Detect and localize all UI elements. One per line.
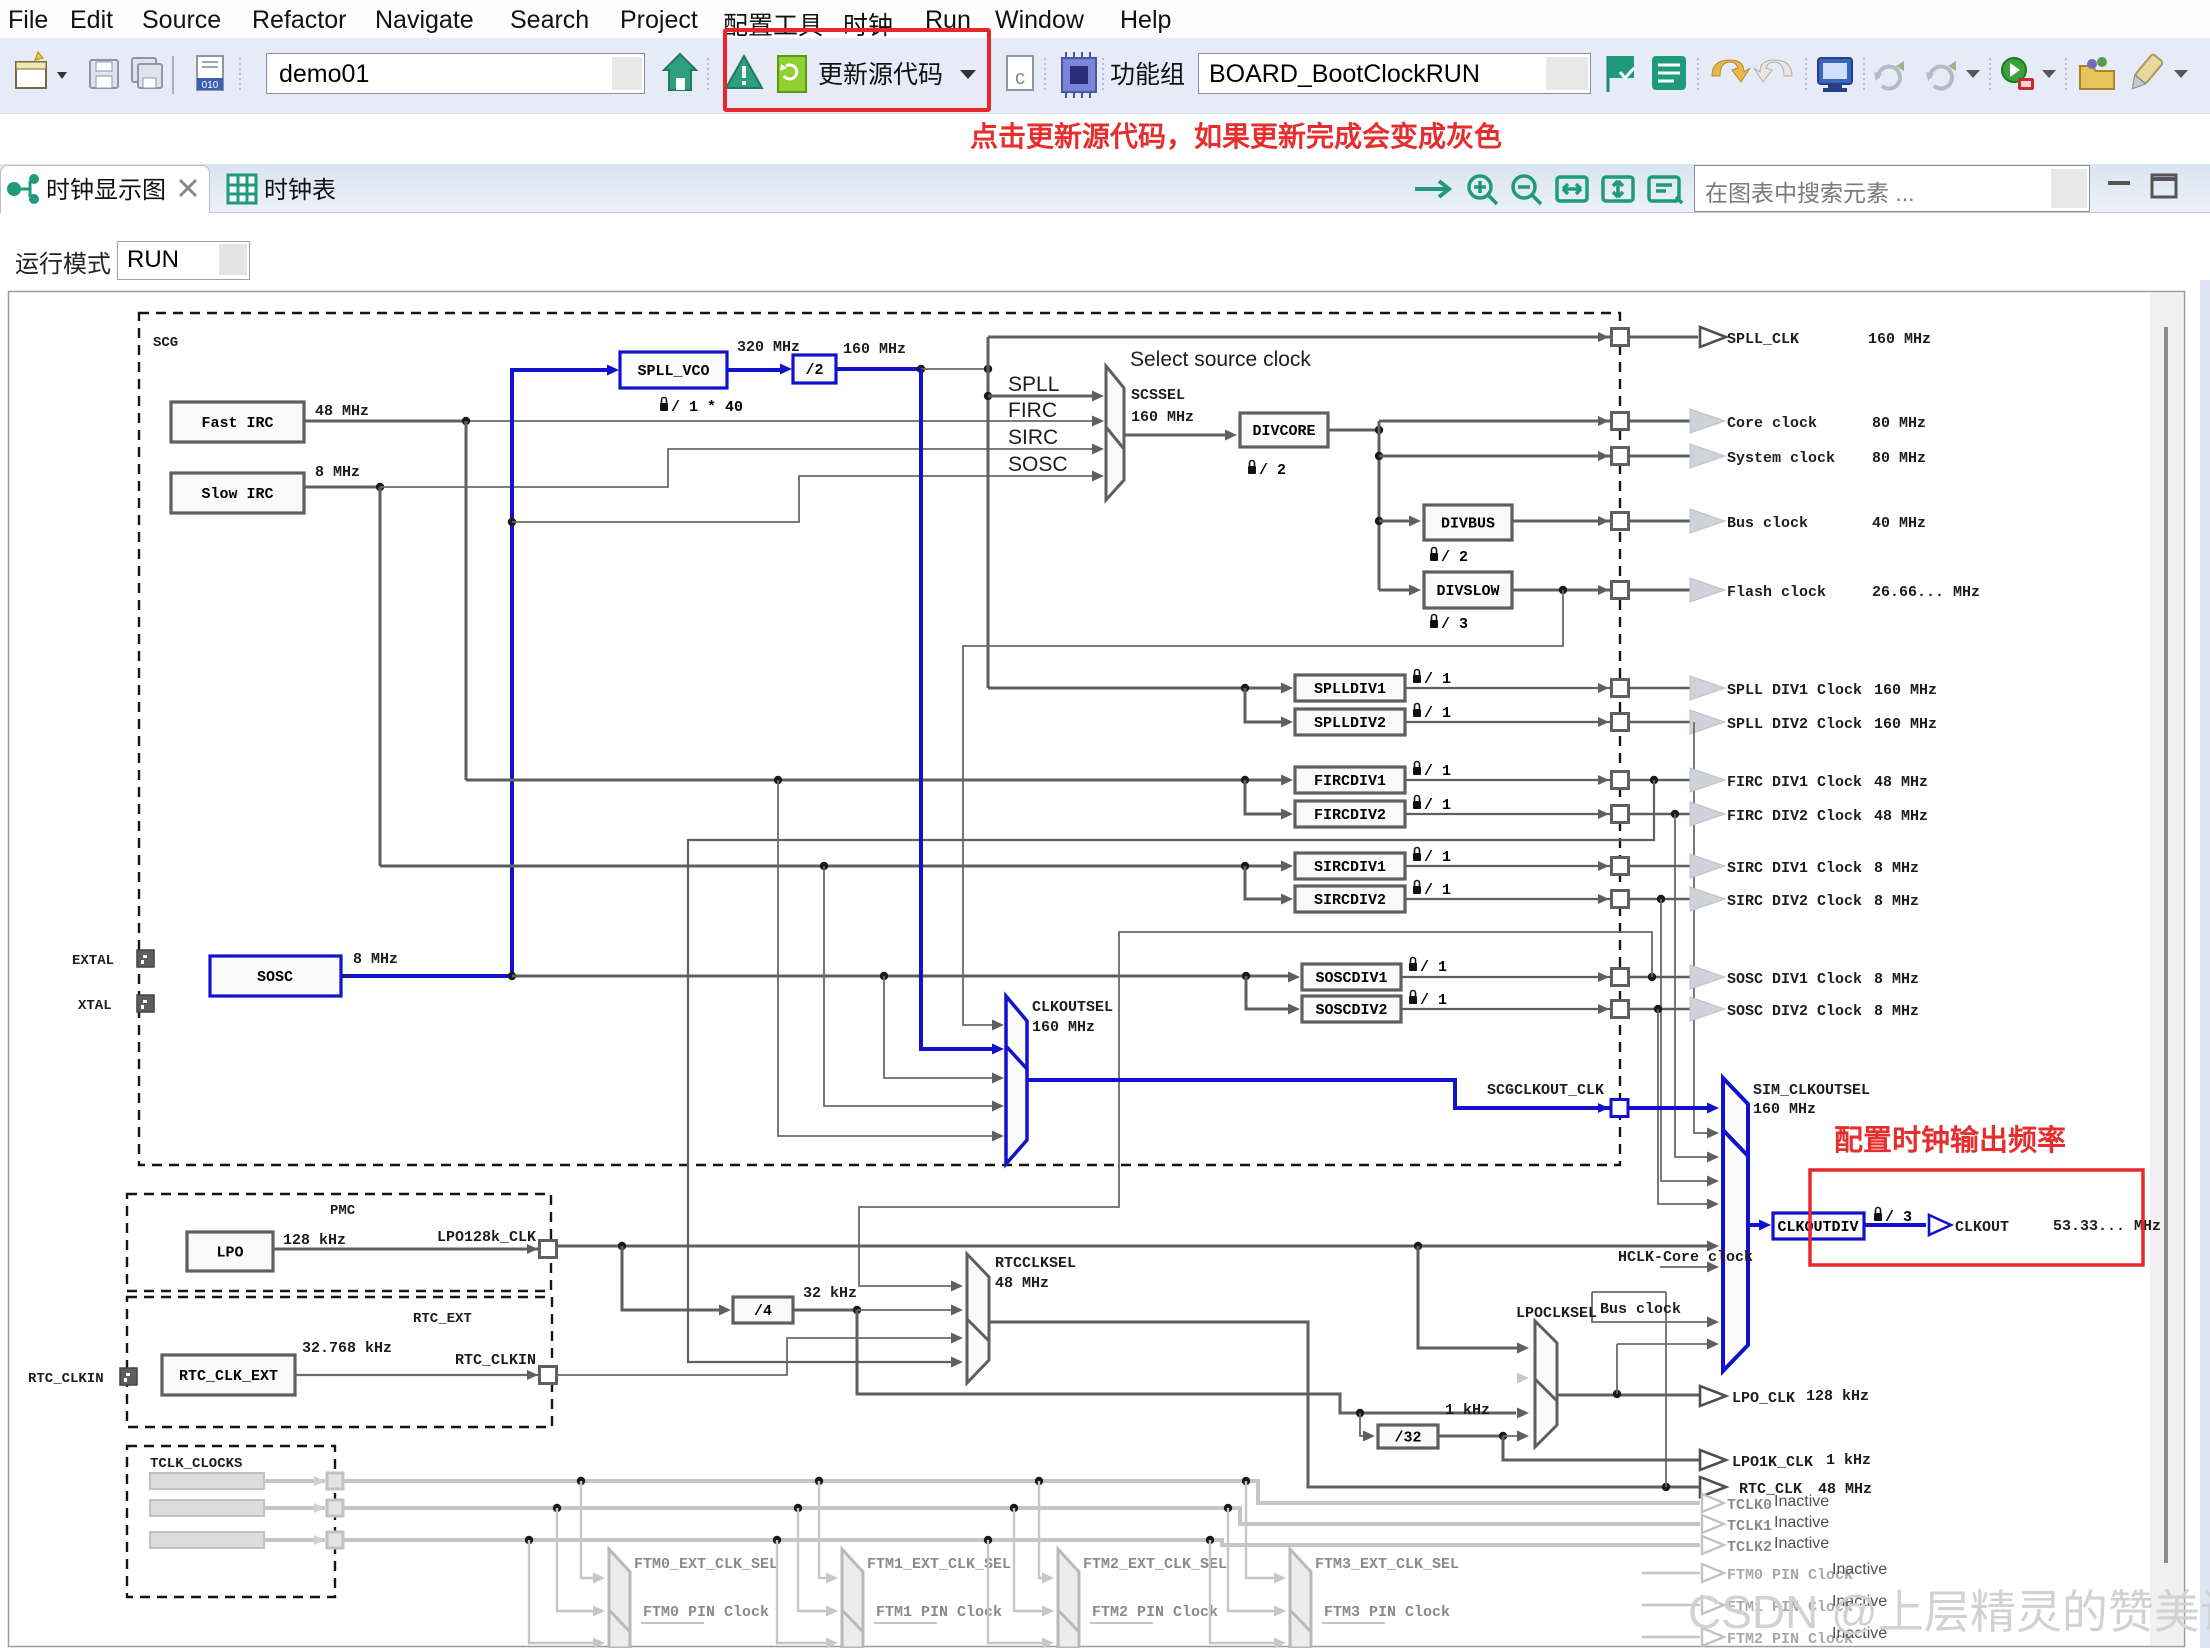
list icon — [1652, 56, 1686, 90]
arrowhead SPLL mux input — [1092, 391, 1104, 402]
arrowhead FTM2 input3 — [1042, 1638, 1054, 1648]
wire div4 output 32kHz — [793, 1309, 857, 1312]
svg-text:FIRC DIV2 Clock: FIRC DIV2 Clock — [1727, 808, 1862, 825]
svg-text:8 MHz: 8 MHz — [1874, 893, 1919, 910]
divider DIVSLOW value — [1430, 615, 1468, 634]
output arrow SPLL DIV2 Clock — [1690, 710, 1725, 734]
svg-text:LPOCLKSEL: LPOCLKSEL — [1516, 1305, 1597, 1322]
junction SOSC DIV2 to SIM mux — [1654, 1005, 1662, 1013]
arrowhead into port connector y590 — [1598, 585, 1609, 595]
wire SOSC to SPLL_VCO blue — [512, 370, 612, 976]
project name field — [266, 53, 645, 94]
arrowhead FTM2 input1 — [1042, 1573, 1054, 1584]
divider box CLKOUTDIV — [1773, 1213, 1864, 1239]
output arrow RTC_CLK — [1700, 1477, 1726, 1497]
wire FTM3 input3 — [1210, 1540, 1278, 1643]
svg-text:160 MHz: 160 MHz — [1032, 1019, 1095, 1036]
wire SOSCDIV1 output — [1401, 976, 1611, 978]
arrowhead SIM mux input HCLK — [1707, 1262, 1719, 1273]
port connector FIRC DIV1 — [1612, 772, 1629, 789]
svg-text:8 MHz: 8 MHz — [1874, 1003, 1919, 1020]
mux FTM0_EXT_CLK_SEL — [609, 1549, 630, 1648]
arrowhead into port connector y1009 — [1598, 1004, 1609, 1014]
svg-text:SPLL: SPLL — [1008, 373, 1059, 396]
junction FTM0 tap1 — [577, 1477, 585, 1485]
svg-text:80 MHz: 80 MHz — [1872, 450, 1926, 467]
wire 32kHz to LPOCLKSEL input3 — [857, 1310, 1516, 1413]
svg-text:RTC_CLKIN: RTC_CLKIN — [28, 1371, 104, 1387]
box DIVSLOW — [1424, 572, 1512, 608]
arrowhead into port connector y899 — [1598, 894, 1609, 904]
output arrow LPO_CLK — [1700, 1386, 1726, 1406]
svg-text:Flash clock: Flash clock — [1727, 584, 1826, 601]
wire bus path horizontal — [1592, 1291, 1666, 1293]
arrowhead SPLL_VCO input — [607, 365, 619, 376]
svg-text:SPLL_CLK: SPLL_CLK — [1727, 331, 1799, 348]
junction LPO128k to LPOCLKSEL — [1414, 1242, 1422, 1250]
port connector SIRC DIV2 — [1612, 891, 1629, 908]
wire FTM2 input2 — [1014, 1508, 1046, 1611]
svg-text:32 kHz: 32 kHz — [803, 1285, 857, 1302]
monitor icon — [1818, 58, 1852, 92]
clock diagram tab icon — [7, 174, 39, 204]
output arrow FIRC DIV2 Clock — [1690, 802, 1725, 826]
svg-text:SIRC DIV2 Clock: SIRC DIV2 Clock — [1727, 893, 1862, 910]
svg-text:FTM2 PIN Clock: FTM2 PIN Clock — [1092, 1604, 1218, 1621]
wire FIRC to mux — [466, 420, 1094, 422]
wire Bus clock to SIM mux — [1592, 1292, 1712, 1322]
junction SPLL node — [984, 365, 992, 373]
wire core distribution vertical — [1378, 421, 1381, 590]
junction FTM3 tap3 — [1206, 1536, 1214, 1544]
svg-text:SPLL DIV2 Clock: SPLL DIV2 Clock — [1727, 716, 1862, 733]
svg-text:DIVCORE: DIVCORE — [1252, 423, 1315, 440]
svg-text:/2: /2 — [805, 362, 823, 379]
junction RTC_CLK to SIM mux — [1662, 1483, 1670, 1491]
junction DIVBUS tap — [1375, 517, 1383, 525]
wire FTM1 input3 — [777, 1540, 830, 1643]
junction FTM2 tap2 — [1010, 1504, 1018, 1512]
wire TCLK2 to connector — [264, 1538, 325, 1542]
underline FTM2 PIN Clock — [1090, 1622, 1153, 1624]
svg-text:RTC_EXT: RTC_EXT — [413, 1311, 472, 1327]
port connector TCLK0 — [327, 1473, 343, 1489]
pin connector RTC_CLKIN — [120, 1368, 137, 1385]
svg-text:FIRC DIV1 Clock: FIRC DIV1 Clock — [1727, 774, 1862, 791]
svg-text:Core clock: Core clock — [1727, 415, 1817, 432]
junction SIRCDIV2 branch — [1241, 862, 1249, 870]
svg-text:FTM3 PIN Clock: FTM3 PIN Clock — [1324, 1604, 1450, 1621]
svg-text:SIRCDIV2: SIRCDIV2 — [1314, 892, 1386, 909]
svg-text:FTM0 PIN Clock: FTM0 PIN Clock — [643, 1604, 769, 1621]
arrowhead FTM3 input1 — [1274, 1573, 1286, 1584]
svg-text:SCSSEL: SCSSEL — [1131, 387, 1185, 404]
svg-text:FTM1 PIN Clock: FTM1 PIN Clock — [876, 1604, 1002, 1621]
red annotation rectangle — [1810, 1170, 2143, 1265]
port connector RTC_CLKIN — [540, 1367, 557, 1384]
binary file icon — [197, 56, 223, 91]
svg-text:48 MHz: 48 MHz — [1874, 774, 1928, 791]
output arrow FTM0 PIN Clock — [1702, 1564, 1724, 1582]
arrowhead LPOCLKSEL input 4 — [1517, 1431, 1529, 1442]
clock table tab icon — [228, 175, 256, 203]
svg-text:Bus clock: Bus clock — [1600, 1301, 1681, 1318]
underline FTM1 PIN Clock — [874, 1622, 937, 1624]
wire RTC_CLK_EXT output — [295, 1374, 540, 1376]
junction SOSC tap to CLKOUTSEL — [880, 972, 888, 980]
svg-text:Inactive: Inactive — [1774, 1493, 1829, 1510]
arrowhead into port connector y977 — [1598, 972, 1609, 982]
wire SPLL_VCO to div2 — [727, 368, 785, 372]
svg-text:SOSCDIV2: SOSCDIV2 — [1315, 1002, 1387, 1019]
arrowhead into TCLK port y1540 — [314, 1535, 325, 1545]
output arrow System clock — [1690, 444, 1725, 468]
wire FIRC DIV2 to SIM mux — [1675, 814, 1712, 1157]
arrowhead FTM2 input2 — [1042, 1606, 1054, 1617]
divider box /4 — [733, 1297, 793, 1323]
box FIRCDIV1 — [1295, 767, 1405, 793]
junction SOSC blue node — [508, 972, 516, 980]
svg-text:SOSCDIV1: SOSCDIV1 — [1315, 970, 1387, 987]
arrowhead SIM mux input SIRCDIV2 — [1707, 1176, 1719, 1187]
port connector SPLL DIV2 — [1612, 714, 1629, 731]
wire FIRCDIV1 output — [1405, 779, 1611, 781]
output arrow FTM2 PIN Clock — [1702, 1628, 1724, 1646]
output arrow TCLK0 — [1702, 1494, 1724, 1512]
wire SIRC DIV2 to arrow — [1629, 898, 1691, 901]
arrowhead FTM3 input2 — [1274, 1606, 1286, 1617]
underline FTM0 PIN Clock — [641, 1622, 704, 1624]
pin connector EXTAL — [137, 950, 154, 967]
wire branch to SOSCDIV2 — [1246, 976, 1295, 1009]
arrowhead RTCCLKSEL input 2 — [951, 1305, 963, 1316]
wire SIRC to mux — [380, 449, 1094, 487]
svg-text:SOSC DIV1 Clock: SOSC DIV1 Clock — [1727, 971, 1862, 988]
arrowhead SIRCDIV1 input — [1281, 861, 1293, 872]
wire LPO_CLK output — [1557, 1394, 1704, 1397]
wire branch to SIRCDIV2 — [1245, 866, 1288, 899]
wire SOSC DIV1 to RTCCLKSEL input1 — [859, 932, 1652, 1286]
junction SOSC DIV1 to RTCCLKSEL — [1648, 973, 1656, 981]
wire FTM2 PIN Clock output — [1642, 1636, 1700, 1638]
output arrow Bus clock — [1690, 509, 1725, 533]
svg-text:SIRCDIV1: SIRCDIV1 — [1314, 859, 1386, 876]
wire SPLL DIV2 to SIM mux — [1694, 722, 1712, 1133]
undo icon — [1712, 60, 1750, 82]
junction Slow IRC tap — [376, 483, 384, 491]
menu bar — [0, 0, 2210, 38]
junction FTM3 tap1 — [1242, 1477, 1250, 1485]
svg-text:FIRCDIV1: FIRCDIV1 — [1314, 773, 1386, 790]
svg-text:/ 1: / 1 — [1424, 671, 1451, 688]
arrowhead SIM mux input SOSCDIV2 — [1707, 1199, 1719, 1210]
wire SIRC divider feed row — [380, 865, 1290, 868]
junction FIRC DIV1 to RTCCLKSEL — [1650, 776, 1658, 784]
port connector LPO128k_CLK — [540, 1241, 557, 1258]
svg-text:Bus clock: Bus clock — [1727, 515, 1808, 532]
port connector Flash clock — [1612, 582, 1629, 599]
wire FTM3 input1 — [1246, 1481, 1278, 1578]
arrowhead into port connector y722 — [1598, 717, 1609, 727]
save all icon — [132, 58, 162, 88]
svg-text:SIRC: SIRC — [1008, 426, 1058, 449]
TCLK1 source bar — [150, 1500, 264, 1516]
wire SOSC DIV2 to SIM mux — [1658, 1009, 1712, 1204]
wire HCLK-Core clock to SIM mux — [1660, 1266, 1712, 1268]
box SPLLDIV1 — [1295, 675, 1405, 701]
output arrow SOSC DIV1 Clock — [1690, 965, 1725, 989]
junction FTM2 tap3 — [984, 1536, 992, 1544]
wire FTM0 input2 — [557, 1508, 597, 1611]
arrowhead div4 input — [719, 1305, 731, 1316]
svg-text:TCLK2: TCLK2 — [1727, 1539, 1772, 1556]
output arrow SPLL DIV1 Clock — [1690, 676, 1725, 700]
mux FTM1_EXT_CLK_SEL — [842, 1549, 863, 1648]
wire to LPOCLKSEL input1 — [1418, 1246, 1520, 1348]
wire TCLK2 row — [343, 1540, 1700, 1545]
junction SPLL 160MHz tap blue — [917, 365, 925, 373]
svg-text:/ 1 * 40: / 1 * 40 — [671, 399, 743, 416]
svg-text:LPO: LPO — [216, 1245, 243, 1262]
wire SIRCDIV2 output — [1405, 898, 1611, 900]
divider SPLLDIV2 value — [1413, 704, 1451, 723]
svg-text:/ 1: / 1 — [1424, 763, 1451, 780]
wire branch to SPLLDIV2 — [1245, 688, 1288, 722]
junction SIRC tap to CLKOUTSEL — [820, 862, 828, 870]
box SOSCDIV1 — [1302, 964, 1401, 990]
svg-text:RTC_CLKIN: RTC_CLKIN — [455, 1352, 536, 1369]
wire SPLL to mux — [988, 395, 1094, 398]
wire FTM1 input1 — [819, 1481, 830, 1578]
home icon — [664, 54, 696, 90]
wire FTM0 input3 — [529, 1540, 597, 1643]
PMC dashed group box — [127, 1194, 551, 1291]
wire SOSC DIV2 to arrow — [1629, 1008, 1691, 1011]
mux LPOCLKSEL — [1535, 1321, 1557, 1447]
wire SPLL DIV2 to arrow — [1629, 721, 1691, 724]
wire Flash clock to arrow — [1629, 589, 1691, 592]
svg-text:8 MHz: 8 MHz — [1874, 971, 1919, 988]
refresh run icon 1 — [1874, 61, 1904, 89]
arrowhead SIM mux input SPLLDIV2 — [1707, 1128, 1719, 1139]
arrowhead SIM mux input LPO_CLK — [1707, 1339, 1719, 1350]
arrowhead CLKOUTSEL input 3 — [992, 1073, 1004, 1084]
wire branch to FIRCDIV2 — [1245, 780, 1288, 814]
divider SOSCDIV1 value — [1409, 958, 1447, 977]
svg-text:SOSC: SOSC — [1008, 453, 1068, 476]
junction SOSC tap for mux — [508, 518, 516, 526]
wire Bus clock — [1512, 520, 1611, 523]
wire FIRC to CLKOUTSEL input5 — [778, 780, 997, 1136]
arrowhead FTM0 input1 — [593, 1573, 605, 1584]
divider SOSCDIV2 value — [1409, 991, 1447, 1010]
wire SOSC DIV1 to arrow — [1629, 976, 1691, 979]
svg-text:160 MHz: 160 MHz — [1131, 409, 1194, 426]
new file icon — [16, 52, 67, 88]
arrowhead FTM0 input3 — [593, 1638, 605, 1648]
svg-text:/ 1: / 1 — [1420, 992, 1447, 1009]
oscillator SOSC 8MHz blue output — [341, 974, 512, 978]
port connector Core clock — [1612, 413, 1629, 430]
wire Core clock to arrow — [1629, 420, 1691, 423]
arrowhead RTCCLKSEL input 4 — [951, 1357, 963, 1368]
wire div2 output blue 160MHz — [836, 367, 921, 371]
arrowhead into port connector y521 — [1598, 516, 1609, 526]
output arrow TCLK2 — [1702, 1536, 1724, 1554]
pin connector XTAL — [137, 995, 154, 1012]
svg-text:Slow IRC: Slow IRC — [201, 486, 273, 503]
arrowhead SIRC mux input — [1092, 444, 1104, 455]
junction to div32 — [1356, 1409, 1364, 1417]
junction SIRC DIV2 to SIM mux — [1657, 895, 1665, 903]
box SPLL_VCO — [620, 352, 727, 388]
save icon — [90, 60, 118, 88]
wire SPLL node vertical x988 — [987, 337, 990, 688]
wire TCLK0 row — [343, 1481, 1700, 1503]
wire Bus clock to arrow — [1629, 520, 1691, 523]
RTC_EXT dashed group box — [127, 1297, 552, 1427]
arrowhead SPLLDIV1 input — [1281, 683, 1293, 694]
svg-text:SIM_CLKOUTSEL: SIM_CLKOUTSEL — [1753, 1082, 1870, 1099]
junction FIRCDIV2 branch — [1241, 776, 1249, 784]
svg-text:/ 2: / 2 — [1259, 462, 1286, 479]
port connector SOSC DIV1 — [1612, 969, 1629, 986]
junction FIRC DIV2 to SIM mux — [1671, 810, 1679, 818]
arrowhead SIM mux input SCGCLKOUT blue — [1707, 1103, 1719, 1114]
output arrow SIRC DIV2 Clock — [1690, 887, 1725, 911]
box SOSCDIV2 — [1302, 996, 1401, 1022]
wire SIRC DIV2 to SIM mux — [1661, 899, 1712, 1181]
svg-text:Inactive: Inactive — [1774, 1514, 1829, 1531]
svg-text:SCGCLKOUT_CLK: SCGCLKOUT_CLK — [1487, 1082, 1604, 1099]
svg-text:8 MHz: 8 MHz — [315, 464, 360, 481]
arrowhead FTM3 input3 — [1274, 1638, 1286, 1648]
junction FTM0 tap3 — [525, 1536, 533, 1544]
svg-text:48 MHz: 48 MHz — [995, 1275, 1049, 1292]
SCG dashed group box — [139, 313, 1620, 1165]
svg-text:1 kHz: 1 kHz — [1826, 1452, 1871, 1469]
wire Slow IRC output 8MHz — [304, 486, 380, 489]
junction SPLLDIV2 branch — [1241, 684, 1249, 692]
junction SPLL mux feed — [984, 392, 992, 400]
svg-text:SPLL_VCO: SPLL_VCO — [637, 363, 709, 380]
wire FTM1 PIN Clock output — [1642, 1604, 1700, 1606]
wire to div32 — [1360, 1413, 1368, 1436]
wire FTM3 input2 — [1228, 1508, 1278, 1611]
arrowhead div32 input — [1363, 1431, 1375, 1442]
svg-text:TCLK0: TCLK0 — [1727, 1497, 1772, 1514]
arrowhead FTM1 input2 — [826, 1606, 838, 1617]
svg-text:160 MHz: 160 MHz — [1868, 331, 1931, 348]
svg-text:Inactive: Inactive — [1832, 1561, 1887, 1578]
svg-text:128 kHz: 128 kHz — [283, 1232, 346, 1249]
port connector SPLL DIV1 — [1612, 680, 1629, 697]
wire SIRC to CLKOUTSEL input4 — [824, 866, 997, 1106]
mux SIM_CLKOUTSEL — [1723, 1078, 1748, 1371]
divider SPLLDIV1 value — [1413, 670, 1451, 688]
tab zone — [0, 114, 2210, 213]
wire SPLL_CLK port to arrow — [1629, 336, 1698, 339]
svg-text:/ 2: / 2 — [1441, 549, 1468, 566]
arrowhead SOSCDIV2 input — [1288, 1004, 1300, 1015]
wire FTM2 input1 — [1039, 1481, 1046, 1578]
junction FTM3 tap2 — [1224, 1504, 1232, 1512]
mux RTCCLKSEL — [967, 1254, 989, 1383]
wire to div4 — [622, 1246, 726, 1310]
svg-text:System clock: System clock — [1727, 450, 1835, 467]
junction FTM1 tap1 — [815, 1477, 823, 1485]
wire FTM1 input2 — [798, 1508, 830, 1611]
svg-text:DIVSLOW: DIVSLOW — [1436, 583, 1499, 600]
svg-text:/4: /4 — [754, 1303, 772, 1320]
svg-text:FIRCDIV2: FIRCDIV2 — [1314, 807, 1386, 824]
svg-text:160 MHz: 160 MHz — [1874, 682, 1937, 699]
wire LPO output 128kHz — [273, 1248, 540, 1251]
refresh run icon 2 — [1926, 61, 1956, 89]
arrowhead CLKOUTSEL input 2 blue — [992, 1044, 1004, 1055]
arrowhead DIVBUS input — [1409, 516, 1421, 527]
arrowhead DIVSLOW input — [1409, 585, 1421, 596]
TCLK0 source bar — [150, 1473, 264, 1489]
arrowhead FIRCDIV2 input — [1281, 809, 1293, 820]
arrowhead into port connector y337 — [1598, 332, 1609, 342]
arrowhead CLKOUTSEL input 5 — [992, 1131, 1004, 1142]
junction FIRC tap to CLKOUTSEL — [774, 776, 782, 784]
svg-text:EXTAL: EXTAL — [72, 953, 114, 969]
arrowhead into port connector y780 — [1598, 775, 1609, 785]
svg-text:/ 1: / 1 — [1424, 882, 1451, 899]
vertical scrollbar thumb — [2164, 327, 2168, 1563]
box DIVBUS — [1424, 505, 1512, 540]
wire SPLLDIV2 output — [1405, 721, 1611, 723]
wire SIRCDIV1 output — [1405, 865, 1611, 867]
svg-text:/32: /32 — [1394, 1430, 1421, 1447]
wire System clock to arrow — [1629, 455, 1691, 458]
arrowhead FIRC mux input — [1092, 416, 1104, 427]
svg-text:CLKOUTSEL: CLKOUTSEL — [1032, 999, 1113, 1016]
wire RTC_CLKIN to RTCCLKSEL input3 — [557, 1338, 955, 1375]
underline FTM3 PIN Clock — [1322, 1622, 1385, 1624]
divider SIRCDIV2 value — [1413, 881, 1451, 900]
svg-text:SCG: SCG — [153, 335, 178, 351]
port connector System clock — [1612, 448, 1629, 465]
wire Flash clock — [1512, 589, 1611, 592]
functional group field — [1198, 53, 1591, 94]
mux SCSSEL system clock source select — [1106, 366, 1124, 500]
wire 160MHz to SPLL node — [921, 368, 988, 370]
svg-text:160 MHz: 160 MHz — [843, 341, 906, 358]
arrowhead SIM mux input FIRCDIV2 — [1707, 1152, 1719, 1163]
wire TCLK0 to connector — [264, 1479, 325, 1483]
svg-text:SOSC DIV2 Clock: SOSC DIV2 Clock — [1727, 1003, 1862, 1020]
output arrow FIRC DIV1 Clock — [1690, 768, 1725, 792]
run config icon — [2002, 58, 2034, 90]
wire TCLK1 row — [343, 1508, 1700, 1524]
output arrow CLKOUT — [1929, 1215, 1951, 1235]
arrowhead RTCCLKSEL input 1 — [951, 1281, 963, 1292]
arrowhead into port connector y814 — [1598, 809, 1609, 819]
arrowhead SOSCDIV1 input — [1288, 972, 1300, 983]
arrowhead into LPO128k port — [527, 1244, 538, 1254]
arrowhead SPLLDIV2 input — [1281, 717, 1293, 728]
svg-text:FTM2_EXT_CLK_SEL: FTM2_EXT_CLK_SEL — [1083, 1556, 1227, 1573]
divider DIVCORE value — [1248, 461, 1286, 480]
diagram toolbar right — [1405, 165, 2195, 213]
arrowhead SIM mux input LPO128k — [1707, 1241, 1719, 1252]
arrowhead DIVCORE input — [1225, 430, 1237, 441]
active tab — [0, 165, 210, 213]
divider box /2 — [793, 355, 836, 383]
